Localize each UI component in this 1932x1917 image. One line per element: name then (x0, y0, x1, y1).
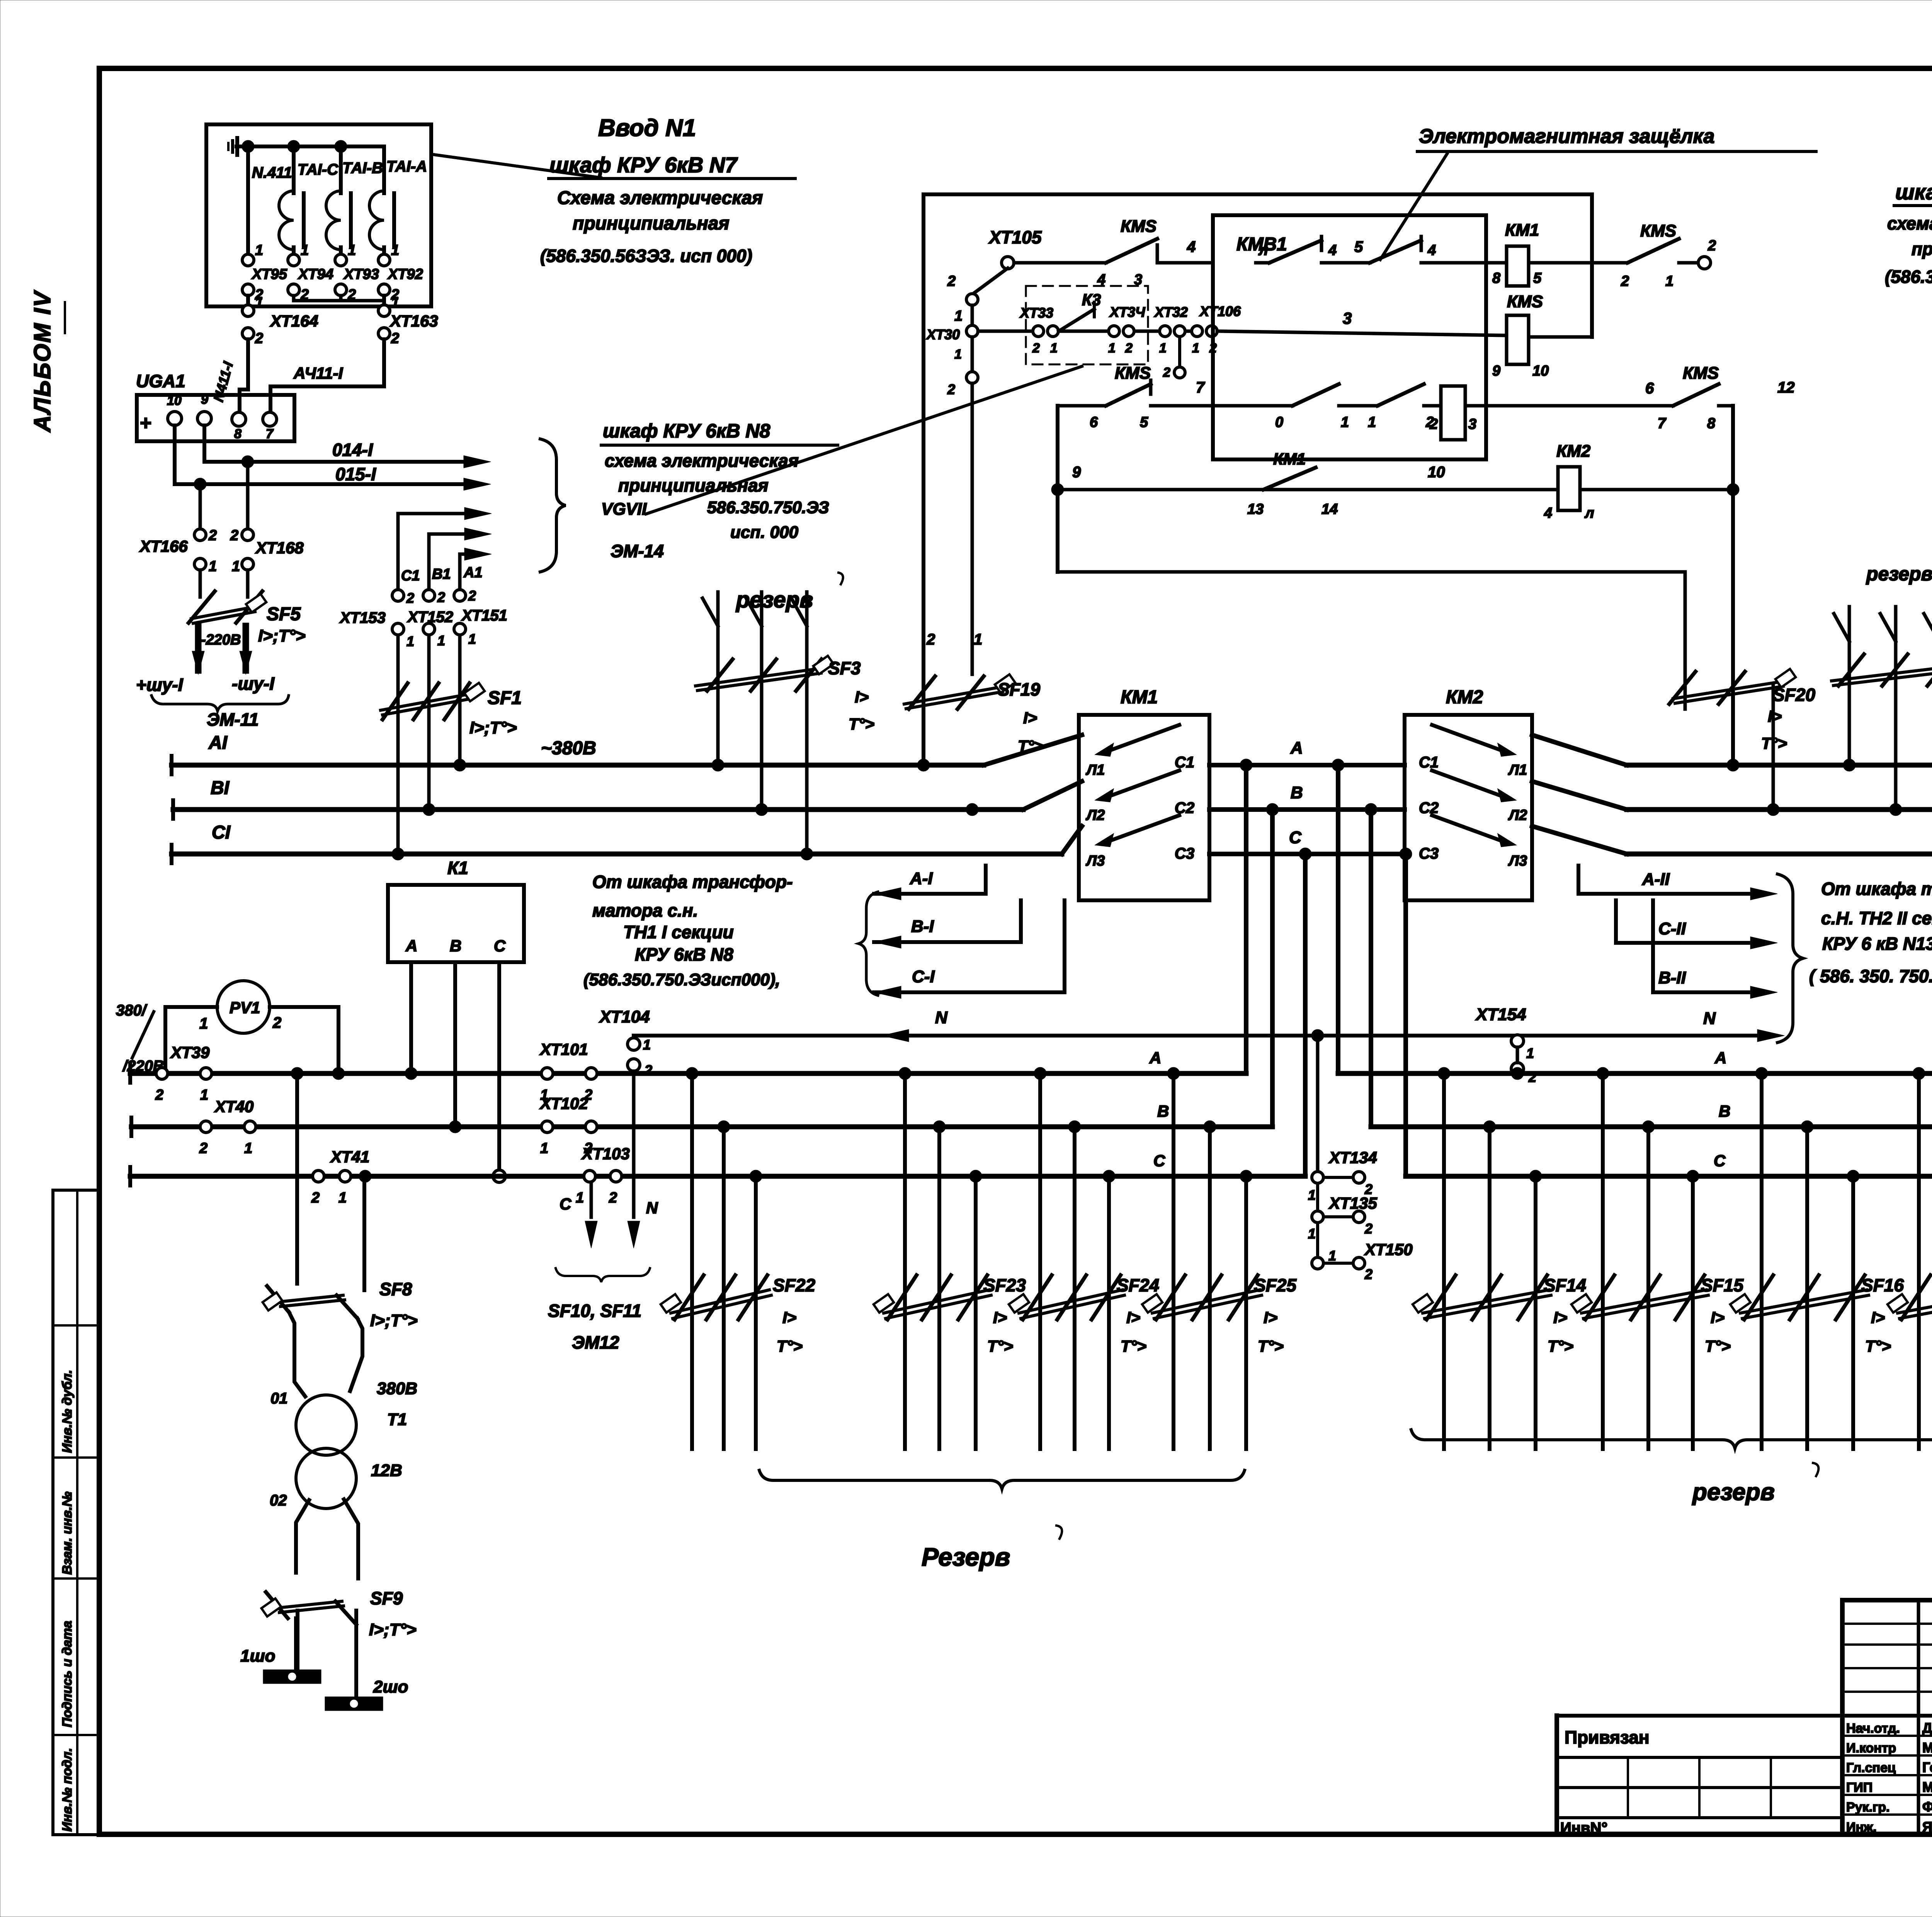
row2 wire (1058, 404, 1106, 408)
svg-text:2: 2 (311, 1190, 320, 1206)
svg-text:От шкафа трансфор-: От шкафа трансфор- (592, 872, 793, 892)
svg-text:PV1: PV1 (230, 998, 260, 1017)
svg-text:1: 1 (255, 242, 263, 259)
breaker SF25 wires (1172, 1073, 1175, 1449)
svg-text:ХТ134: ХТ134 (1328, 1148, 1377, 1167)
lower bus B left (131, 1124, 1272, 1129)
svg-text:А: А (1149, 1049, 1161, 1067)
svg-text:I>: I> (1553, 1308, 1567, 1327)
KMS coil 9-10 (1507, 315, 1529, 364)
junction dots bus I (454, 759, 466, 771)
svg-text:Привязан: Привязан (1565, 1727, 1650, 1747)
svg-text:КМS: КМS (1121, 217, 1156, 236)
vertical to SF20 (1731, 406, 1735, 765)
breaker SF24 wires (1038, 1073, 1042, 1449)
KM2 contact C (1498, 835, 1515, 846)
svg-text:В-II: В-II (1658, 968, 1686, 987)
middle terminal row y857 (978, 330, 1032, 333)
breaker SF3 (707, 659, 733, 691)
svg-text:8: 8 (234, 427, 241, 441)
bus BI (173, 807, 1023, 812)
bus CI (172, 852, 1062, 857)
lower bus B right (1371, 1124, 1932, 1129)
svg-text:ХТ135: ХТ135 (1328, 1194, 1377, 1212)
svg-text:Мосеенко: Мосеенко (1922, 1740, 1932, 1755)
terminal XT104 (632, 1036, 636, 1039)
wire UGA1-9 down (202, 425, 206, 462)
mid bus B (1209, 807, 1405, 812)
brace EM-11 (151, 696, 289, 711)
svg-text:1: 1 (244, 1140, 252, 1157)
svg-text:А: А (1290, 738, 1303, 757)
svg-text:I>;Т°>: I>;Т°> (469, 718, 517, 737)
svg-text:+шу-I: +шу-I (136, 675, 184, 695)
terminal XT40 (200, 1121, 212, 1133)
svg-text:С3: С3 (1419, 845, 1439, 862)
svg-text:SF10, SF11: SF10, SF11 (548, 1301, 641, 1321)
svg-text:2: 2 (468, 588, 476, 604)
svg-text:ХТ104: ХТ104 (599, 1007, 650, 1026)
svg-text:КМ1: КМ1 (1121, 687, 1158, 708)
busbar 2sho (325, 1697, 383, 1711)
wire B1 (427, 534, 431, 590)
wires into T1 (289, 1312, 305, 1397)
svg-text:1: 1 (974, 631, 982, 648)
svg-text:( 586. 350. 750.ЭЗ. исп.000): ( 586. 350. 750.ЭЗ. исп.000) (1809, 966, 1932, 986)
wire TAI-A (382, 146, 386, 193)
svg-text:ХТ94: ХТ94 (298, 266, 333, 282)
wire to 2sho (354, 1611, 358, 1697)
wire A1 (458, 554, 462, 590)
CT coil TAI-B (326, 191, 341, 250)
svg-text:1: 1 (1526, 1045, 1534, 1061)
svg-text:8: 8 (1492, 270, 1501, 286)
svg-text:10: 10 (1532, 363, 1549, 379)
terminal XT164 (242, 305, 254, 316)
terminal XT150 (1316, 1223, 1319, 1257)
wire SF8 right (362, 1176, 366, 1290)
svg-text:SF1: SF1 (488, 688, 522, 708)
wire B-II (1651, 900, 1655, 992)
svg-text:принципиальная: принципиальная (573, 213, 730, 234)
terminal XT163 (378, 305, 390, 316)
svg-text:7: 7 (266, 427, 274, 441)
svg-text:I>: I> (1023, 709, 1037, 727)
breaker SF8 (267, 1286, 289, 1312)
svg-text:схема электрическая: схема электрическая (605, 451, 799, 471)
svg-text:SF24: SF24 (1117, 1275, 1159, 1295)
svg-text:ХТ106: ХТ106 (1199, 303, 1241, 319)
brace left TN1 (859, 892, 878, 995)
svg-text:2: 2 (272, 1014, 281, 1031)
wire to XT166 (199, 484, 202, 529)
svg-text:Т°>: Т°> (1258, 1337, 1284, 1355)
wire N411-I (240, 339, 248, 412)
svg-text:С: С (1289, 828, 1302, 847)
svg-text:-шу-I: -шу-I (232, 674, 275, 694)
svg-text:В: В (450, 937, 461, 955)
svg-text:5: 5 (1533, 270, 1542, 286)
svg-text:12В: 12В (371, 1461, 402, 1480)
svg-text:ХТ92: ХТ92 (387, 266, 423, 282)
svg-text:8: 8 (1707, 415, 1716, 432)
breaker SF14 symbol (1427, 1275, 1456, 1320)
svg-text:2: 2 (609, 1190, 617, 1206)
svg-text:ЭМ-14: ЭМ-14 (611, 541, 664, 561)
svg-text:Инж.: Инж. (1846, 1820, 1877, 1835)
svg-text:1: 1 (1368, 414, 1376, 430)
breaker SF15 symbol (1585, 1275, 1614, 1320)
wires from T1 bottom (296, 1500, 309, 1573)
wire XT104 down to N arrow (632, 1071, 636, 1217)
lower bus A left (130, 1071, 1246, 1076)
brace SF10 SF11 (556, 1268, 650, 1282)
relay loop left wire (922, 194, 925, 765)
terminal XT166 (194, 529, 206, 541)
svg-text:В1: В1 (432, 566, 451, 582)
svg-text:02: 02 (270, 1492, 287, 1509)
svg-text:Резерв: Резерв (922, 1543, 1010, 1571)
wire XT92 to XT163 (382, 296, 386, 305)
arrow C1 (398, 512, 479, 515)
svg-text:КМ2: КМ2 (1446, 687, 1483, 708)
svg-text:С1: С1 (1175, 754, 1194, 771)
svg-text:ХТ33: ХТ33 (1019, 305, 1053, 321)
svg-text:10: 10 (1428, 464, 1445, 481)
svg-text:ХТ30: ХТ30 (926, 327, 960, 342)
KMV1 lower contact 2 (1378, 384, 1424, 406)
svg-text:Янченко: Янченко (1922, 1819, 1932, 1835)
feeder A to lower bus left (1244, 765, 1248, 1073)
svg-text:ГИП: ГИП (1846, 1780, 1872, 1795)
ground symbol (237, 145, 250, 148)
svg-text:ХТ154: ХТ154 (1475, 1005, 1526, 1024)
svg-text:1: 1 (1159, 341, 1167, 356)
svg-text:А-I: А-I (910, 869, 933, 888)
svg-text:1: 1 (576, 1190, 584, 1206)
svg-text:12: 12 (1777, 379, 1795, 396)
svg-text:2: 2 (230, 527, 238, 544)
svg-text:1: 1 (1050, 341, 1058, 356)
svg-text:I>: I> (993, 1308, 1007, 1327)
svg-text:С: С (560, 1195, 571, 1213)
svg-text:ТАI-С: ТАI-С (298, 161, 338, 178)
wire B-I (874, 936, 901, 948)
contact KM1 13-14 (1264, 468, 1316, 490)
svg-text:N: N (935, 1008, 948, 1027)
svg-text:ТН1 I секции: ТН1 I секции (623, 922, 734, 942)
voltmeter PV1 (217, 981, 270, 1033)
brace right TN2 (1777, 874, 1803, 1043)
privyazan columns (1627, 1757, 1629, 1818)
terminal XT95 (242, 254, 254, 266)
svg-text:К3: К3 (1082, 291, 1101, 309)
svg-text:ХТ40: ХТ40 (214, 1097, 253, 1116)
svg-text:ТАI-А: ТАI-А (386, 158, 427, 175)
breaker SF23 symbol (888, 1275, 917, 1320)
svg-text:4: 4 (1328, 242, 1337, 259)
svg-text:Гл.спец: Гл.спец (1846, 1761, 1896, 1775)
svg-text:I>: I> (782, 1308, 796, 1327)
KMV1 box (1213, 215, 1486, 459)
svg-text:2шо: 2шо (373, 1677, 408, 1696)
node on 015-I (194, 478, 206, 490)
svg-text:КМS: КМS (1683, 364, 1719, 383)
breaker SF14 wires (1442, 1073, 1446, 1449)
bus BII diagonal (1532, 781, 1627, 810)
svg-text:SF25: SF25 (1254, 1275, 1297, 1295)
breaker SF20 (1669, 672, 1696, 704)
svg-text:КМ1: КМ1 (1273, 450, 1306, 468)
vertical feed to XT chain (1316, 1036, 1320, 1172)
svg-text:С1: С1 (1419, 754, 1439, 771)
svg-text:шкаф КРУ 6кВ N8: шкаф КРУ 6кВ N8 (603, 420, 770, 442)
svg-text:01: 01 (270, 1390, 288, 1407)
svg-text:Т1: Т1 (387, 1410, 407, 1429)
svg-text:С: С (1153, 1152, 1165, 1170)
svg-text:1: 1 (1308, 1187, 1316, 1203)
svg-text:SF8: SF8 (379, 1279, 412, 1299)
svg-text:2: 2 (1708, 238, 1716, 254)
svg-text:1: 1 (406, 633, 414, 649)
svg-text:2: 2 (926, 631, 935, 648)
svg-text:шкаф КРУ 6кВ N14: шкаф КРУ 6кВ N14 (1895, 180, 1932, 204)
KMV1 lower contact 1 (1293, 384, 1339, 406)
svg-text:КРУ 6кВ N8: КРУ 6кВ N8 (635, 944, 733, 964)
wire TAI-C (292, 146, 296, 193)
svg-text:2: 2 (947, 273, 956, 289)
svg-text:Л1: Л1 (1508, 762, 1527, 778)
svg-text:Данилов: Данилов (1922, 1720, 1932, 1736)
svg-text:7: 7 (1196, 379, 1205, 396)
terminals XT153 XT152 XT151 (392, 590, 404, 601)
wire UGA1-10 down (173, 425, 177, 484)
svg-text:1: 1 (391, 242, 399, 259)
svg-text:ХТ3Ч: ХТ3Ч (1109, 304, 1146, 320)
svg-text:ХТ102: ХТ102 (539, 1094, 588, 1112)
lower loop left vertical (1056, 406, 1060, 572)
leader line N1 (434, 155, 601, 178)
svg-text:Инв.№ дубл.: Инв.№ дубл. (60, 1370, 75, 1453)
junction dots bus II (1727, 759, 1739, 771)
breaker SF16 symbol (1744, 1275, 1773, 1320)
KMV1 contact 2 (1364, 261, 1370, 265)
svg-text:Т°>: Т°> (987, 1337, 1013, 1355)
svg-text:Л3: Л3 (1508, 853, 1527, 869)
svg-text:SF19: SF19 (998, 679, 1040, 699)
svg-text:л: л (1258, 242, 1268, 259)
svg-text:Т°>: Т°> (1865, 1337, 1891, 1355)
svg-text:ИнвN°: ИнвN° (1560, 1820, 1607, 1837)
mini table columns (1917, 1600, 1920, 1835)
breaker SF16 wires (1760, 1073, 1764, 1449)
svg-text:N.411: N.411 (252, 164, 292, 181)
svg-text:1: 1 (391, 294, 399, 311)
wire A-II (1577, 866, 1580, 894)
svg-text:SF15: SF15 (1701, 1275, 1744, 1295)
svg-text:Т°>: Т°> (1121, 1337, 1146, 1355)
svg-text:АI: АI (208, 733, 228, 753)
CT coil TAI-C (279, 191, 294, 250)
svg-text:1: 1 (1341, 414, 1349, 430)
svg-text:1: 1 (540, 1140, 548, 1157)
svg-text:схема электрическая: схема электрическая (1887, 213, 1932, 233)
svg-text:ЭМ-11: ЭМ-11 (207, 709, 259, 730)
svg-text:1: 1 (255, 294, 263, 311)
UGA1 block (137, 395, 294, 441)
CT cabinet box N1 (206, 124, 431, 306)
wire C-II (1614, 900, 1618, 943)
svg-text:От шкафа трансформатора: От шкафа трансформатора (1821, 879, 1932, 899)
KM1 contact A (1097, 744, 1113, 756)
svg-text:1шо: 1шо (240, 1647, 275, 1665)
mid bus C (1209, 852, 1405, 856)
svg-text:SF5: SF5 (267, 604, 301, 624)
bus AI (172, 763, 984, 768)
wire SF8 left (295, 1073, 299, 1284)
terminal XT101 (541, 1068, 553, 1079)
svg-text:Л3: Л3 (1085, 853, 1105, 869)
svg-text:Мосеенко: Мосеенко (1922, 1779, 1932, 1795)
svg-text:Т°>: Т°> (849, 715, 874, 733)
svg-text:ХТ39: ХТ39 (170, 1043, 210, 1061)
svg-text:SF20: SF20 (1773, 685, 1815, 705)
junction dots CT box (242, 140, 254, 153)
svg-text:ХТ41: ХТ41 (330, 1148, 369, 1166)
wire to 1sho (296, 1611, 299, 1670)
wire from XT105 down (972, 268, 1008, 294)
svg-text:С-II: С-II (1658, 919, 1686, 938)
svg-text:резерв: резерв (1866, 563, 1932, 585)
svg-text:ВI: ВI (211, 778, 230, 798)
lower bus C right (1406, 1174, 1932, 1179)
svg-text:ХТ163: ХТ163 (389, 312, 438, 330)
svg-text:Ввод N1: Ввод N1 (598, 115, 696, 141)
KM1 contact B (1097, 790, 1113, 801)
svg-text:13: 13 (1247, 501, 1264, 517)
feeder A to lower bus right (1336, 765, 1340, 1073)
svg-text:2: 2 (437, 589, 445, 605)
svg-text:Нач.отд.: Нач.отд. (1846, 1721, 1900, 1736)
svg-text:Схема электрическая: Схема электрическая (557, 188, 763, 208)
svg-text:С: С (494, 937, 506, 955)
svg-text:2: 2 (208, 527, 217, 544)
contact K3 (1059, 309, 1094, 331)
terminal XT135 (1316, 1183, 1319, 1211)
svg-text:ХТ150: ХТ150 (1364, 1240, 1413, 1259)
svg-text:5: 5 (1354, 238, 1363, 255)
svg-text:I>;Т°>: I>;Т°> (369, 1620, 417, 1639)
svg-text:380В: 380В (377, 1379, 417, 1398)
svg-text:СI: СI (212, 822, 231, 843)
svg-text:В: В (1291, 783, 1303, 802)
svg-text:ХТ32: ХТ32 (1154, 304, 1188, 320)
top rail y680 (1014, 261, 1106, 265)
svg-text:Л1: Л1 (1085, 762, 1105, 778)
svg-text:А: А (1714, 1049, 1726, 1067)
breaker SF19 (909, 676, 935, 709)
reserve stub wires left (716, 592, 720, 765)
row2 inside KMV1 (1213, 404, 1293, 408)
feeder C to lower bus left (1303, 854, 1308, 1176)
svg-text:2: 2 (406, 590, 414, 606)
svg-text:2: 2 (1364, 1221, 1372, 1237)
svg-text:А1: А1 (463, 565, 483, 581)
wire C1 (396, 514, 400, 590)
svg-text:2: 2 (1364, 1266, 1372, 1282)
svg-text:КМS: КМS (1640, 221, 1676, 240)
relay loop top wire (923, 192, 1592, 196)
node on 014-I (241, 456, 254, 468)
svg-text:КРУ 6 кВ N13: КРУ 6 кВ N13 (1822, 934, 1932, 954)
breaker SF22 symbol (675, 1275, 704, 1320)
svg-text:7: 7 (1658, 415, 1667, 432)
svg-text:Гольцман: Гольцман (1922, 1759, 1932, 1775)
lower bus A right (1338, 1071, 1932, 1076)
svg-text:I>: I> (1711, 1308, 1725, 1327)
svg-text:ХТ164: ХТ164 (270, 312, 318, 330)
svg-text:Л2: Л2 (1085, 807, 1105, 823)
svg-text:Т°>: Т°> (1548, 1337, 1573, 1355)
svg-text:Рук.гр.: Рук.гр. (1846, 1800, 1889, 1815)
svg-text:ХТ101: ХТ101 (539, 1040, 588, 1058)
wire row3 into KMV1 (1217, 331, 1507, 335)
wire A-I (874, 888, 901, 900)
svg-text:ХТ105: ХТ105 (988, 227, 1042, 247)
svg-text:К1: К1 (447, 858, 468, 878)
terminal XT92 (378, 254, 390, 266)
mini table rows (1842, 1623, 1932, 1625)
transformer T1 top winding (296, 1395, 356, 1455)
breaker SF21 wires (1917, 1073, 1921, 1449)
svg-text:4: 4 (1427, 242, 1436, 259)
dashed box K3 (1026, 286, 1148, 364)
svg-text:ХТ95: ХТ95 (251, 266, 287, 282)
svg-text:С3: С3 (1175, 845, 1194, 862)
svg-text:(586.350.750.ЭЗисп000),: (586.350.750.ЭЗисп000), (583, 970, 780, 989)
svg-text:ХТ168: ХТ168 (255, 539, 304, 557)
svg-text:I>: I> (855, 688, 869, 706)
contact KMS 2-1 (1628, 239, 1679, 263)
KM1 coil (1486, 261, 1507, 265)
svg-text:1: 1 (437, 633, 445, 648)
svg-text:А-II: А-II (1642, 870, 1670, 889)
svg-text:принципиальная: принципиальная (1912, 239, 1932, 259)
bus BII (1627, 807, 1932, 812)
svg-text:В: В (1157, 1102, 1169, 1120)
svg-text:ХТ93: ХТ93 (343, 266, 379, 282)
svg-text:6: 6 (1645, 380, 1654, 397)
KM2 contact B (1498, 790, 1515, 801)
KM2 contact A (1498, 744, 1515, 756)
svg-text:КМS: КМS (1507, 292, 1543, 311)
svg-text:В-I: В-I (911, 917, 934, 936)
svg-text:матора с.н.: матора с.н. (592, 900, 698, 920)
svg-text:SF23: SF23 (983, 1275, 1026, 1295)
big brace VGVII (540, 439, 566, 572)
svg-text:I>;Т°>: I>;Т°> (370, 1311, 418, 1330)
terminal XT168 (242, 529, 253, 541)
svg-text:резерв: резерв (1692, 1479, 1775, 1505)
row4 return wire (1058, 570, 1685, 574)
KM1 contact C (1097, 835, 1113, 846)
transformer T1 bottom winding (296, 1448, 356, 1509)
SF20 left pole (1684, 572, 1687, 709)
breaker SF9 (266, 1592, 288, 1618)
svg-text:АЧ11-I: АЧ11-I (293, 364, 344, 382)
breaker SF4 (1838, 654, 1864, 686)
terminal XT94 (288, 254, 299, 266)
